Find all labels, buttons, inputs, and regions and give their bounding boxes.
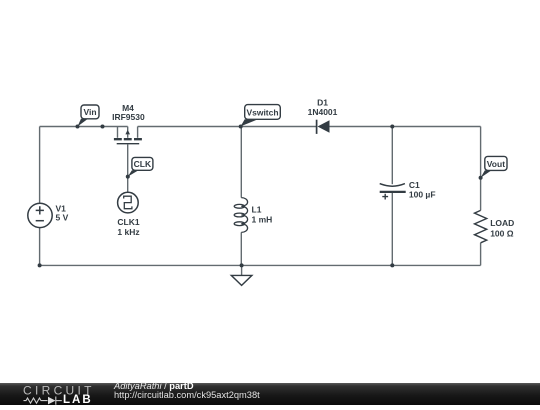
svg-text:100 µF: 100 µF [409, 190, 436, 200]
svg-text:CLK: CLK [134, 159, 152, 169]
svg-text:C1: C1 [409, 180, 420, 190]
svg-text:Vout: Vout [487, 159, 505, 169]
svg-text:IRF9530: IRF9530 [112, 112, 145, 122]
svg-text:Vin: Vin [83, 107, 96, 117]
svg-text:100 Ω: 100 Ω [490, 229, 514, 239]
svg-text:LAB: LAB [63, 394, 93, 405]
svg-text:L1: L1 [252, 205, 262, 215]
svg-text:CLK1: CLK1 [117, 217, 139, 227]
svg-text:LOAD: LOAD [490, 218, 514, 228]
svg-text:1N4001: 1N4001 [308, 107, 338, 117]
svg-text:Vswitch: Vswitch [246, 107, 278, 117]
svg-text:5 V: 5 V [56, 212, 69, 222]
svg-text:1 mH: 1 mH [252, 215, 273, 225]
svg-text:1 kHz: 1 kHz [117, 227, 139, 237]
svg-text:D1: D1 [317, 97, 328, 107]
